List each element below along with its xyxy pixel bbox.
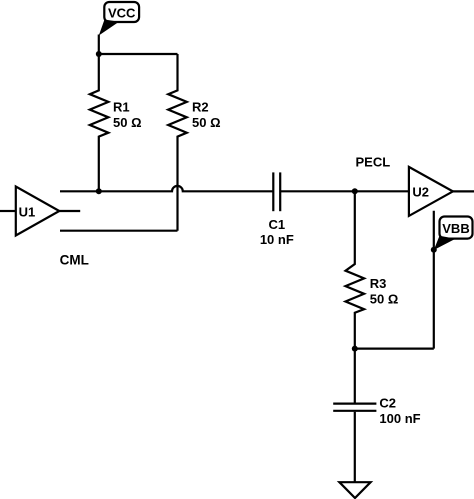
svg-text:C2: C2 <box>379 395 396 410</box>
wire junction down to C2 <box>354 349 356 403</box>
wire top differential line (hop over R2 net) <box>60 186 273 191</box>
svg-text:C1: C1 <box>268 217 285 232</box>
wire U2 output <box>453 190 474 192</box>
op-amp U1 <box>16 187 60 236</box>
svg-text:50 Ω: 50 Ω <box>113 115 142 130</box>
wire junction to VBB net <box>355 348 434 350</box>
svg-text:100 nF: 100 nF <box>379 411 420 426</box>
svg-text:R3: R3 <box>370 276 387 291</box>
ground <box>339 482 370 498</box>
svg-text:50 Ω: 50 Ω <box>370 292 399 307</box>
svg-text:R2: R2 <box>192 100 209 115</box>
svg-text:U2: U2 <box>412 184 429 199</box>
node PECL junction <box>352 188 358 194</box>
wire bottom differential line <box>60 230 178 232</box>
op-amp U2 <box>409 167 453 216</box>
node VBB tap <box>431 247 437 253</box>
svg-text:U1: U1 <box>19 204 36 219</box>
capacitor C2 <box>333 395 420 426</box>
node R1 bottom junction <box>96 188 102 194</box>
power flag VBB <box>434 217 473 251</box>
power flag VCC <box>99 2 139 36</box>
resistor R1 <box>90 54 142 191</box>
svg-text:50 Ω: 50 Ω <box>192 115 221 130</box>
node VCC rail junction <box>96 51 102 57</box>
svg-text:R1: R1 <box>113 100 130 115</box>
svg-text:CML: CML <box>60 252 89 267</box>
wire VBB net vertical <box>433 211 435 349</box>
wire VCC stub <box>98 35 100 55</box>
svg-text:10 nF: 10 nF <box>260 232 294 247</box>
resistor R3 <box>346 191 399 348</box>
wire C1 to U2 <box>280 190 409 192</box>
capacitor C1 <box>260 172 294 247</box>
svg-text:VBB: VBB <box>442 221 469 236</box>
wire U1 output stub <box>59 210 80 212</box>
resistor R2 <box>168 54 220 231</box>
wire U1 input <box>0 210 16 212</box>
wire VCC rail horizontal <box>99 53 178 55</box>
svg-text:PECL: PECL <box>356 155 391 170</box>
node R3/C2 junction <box>352 346 358 352</box>
wire C2 to ground <box>354 412 356 482</box>
svg-text:VCC: VCC <box>108 6 136 21</box>
